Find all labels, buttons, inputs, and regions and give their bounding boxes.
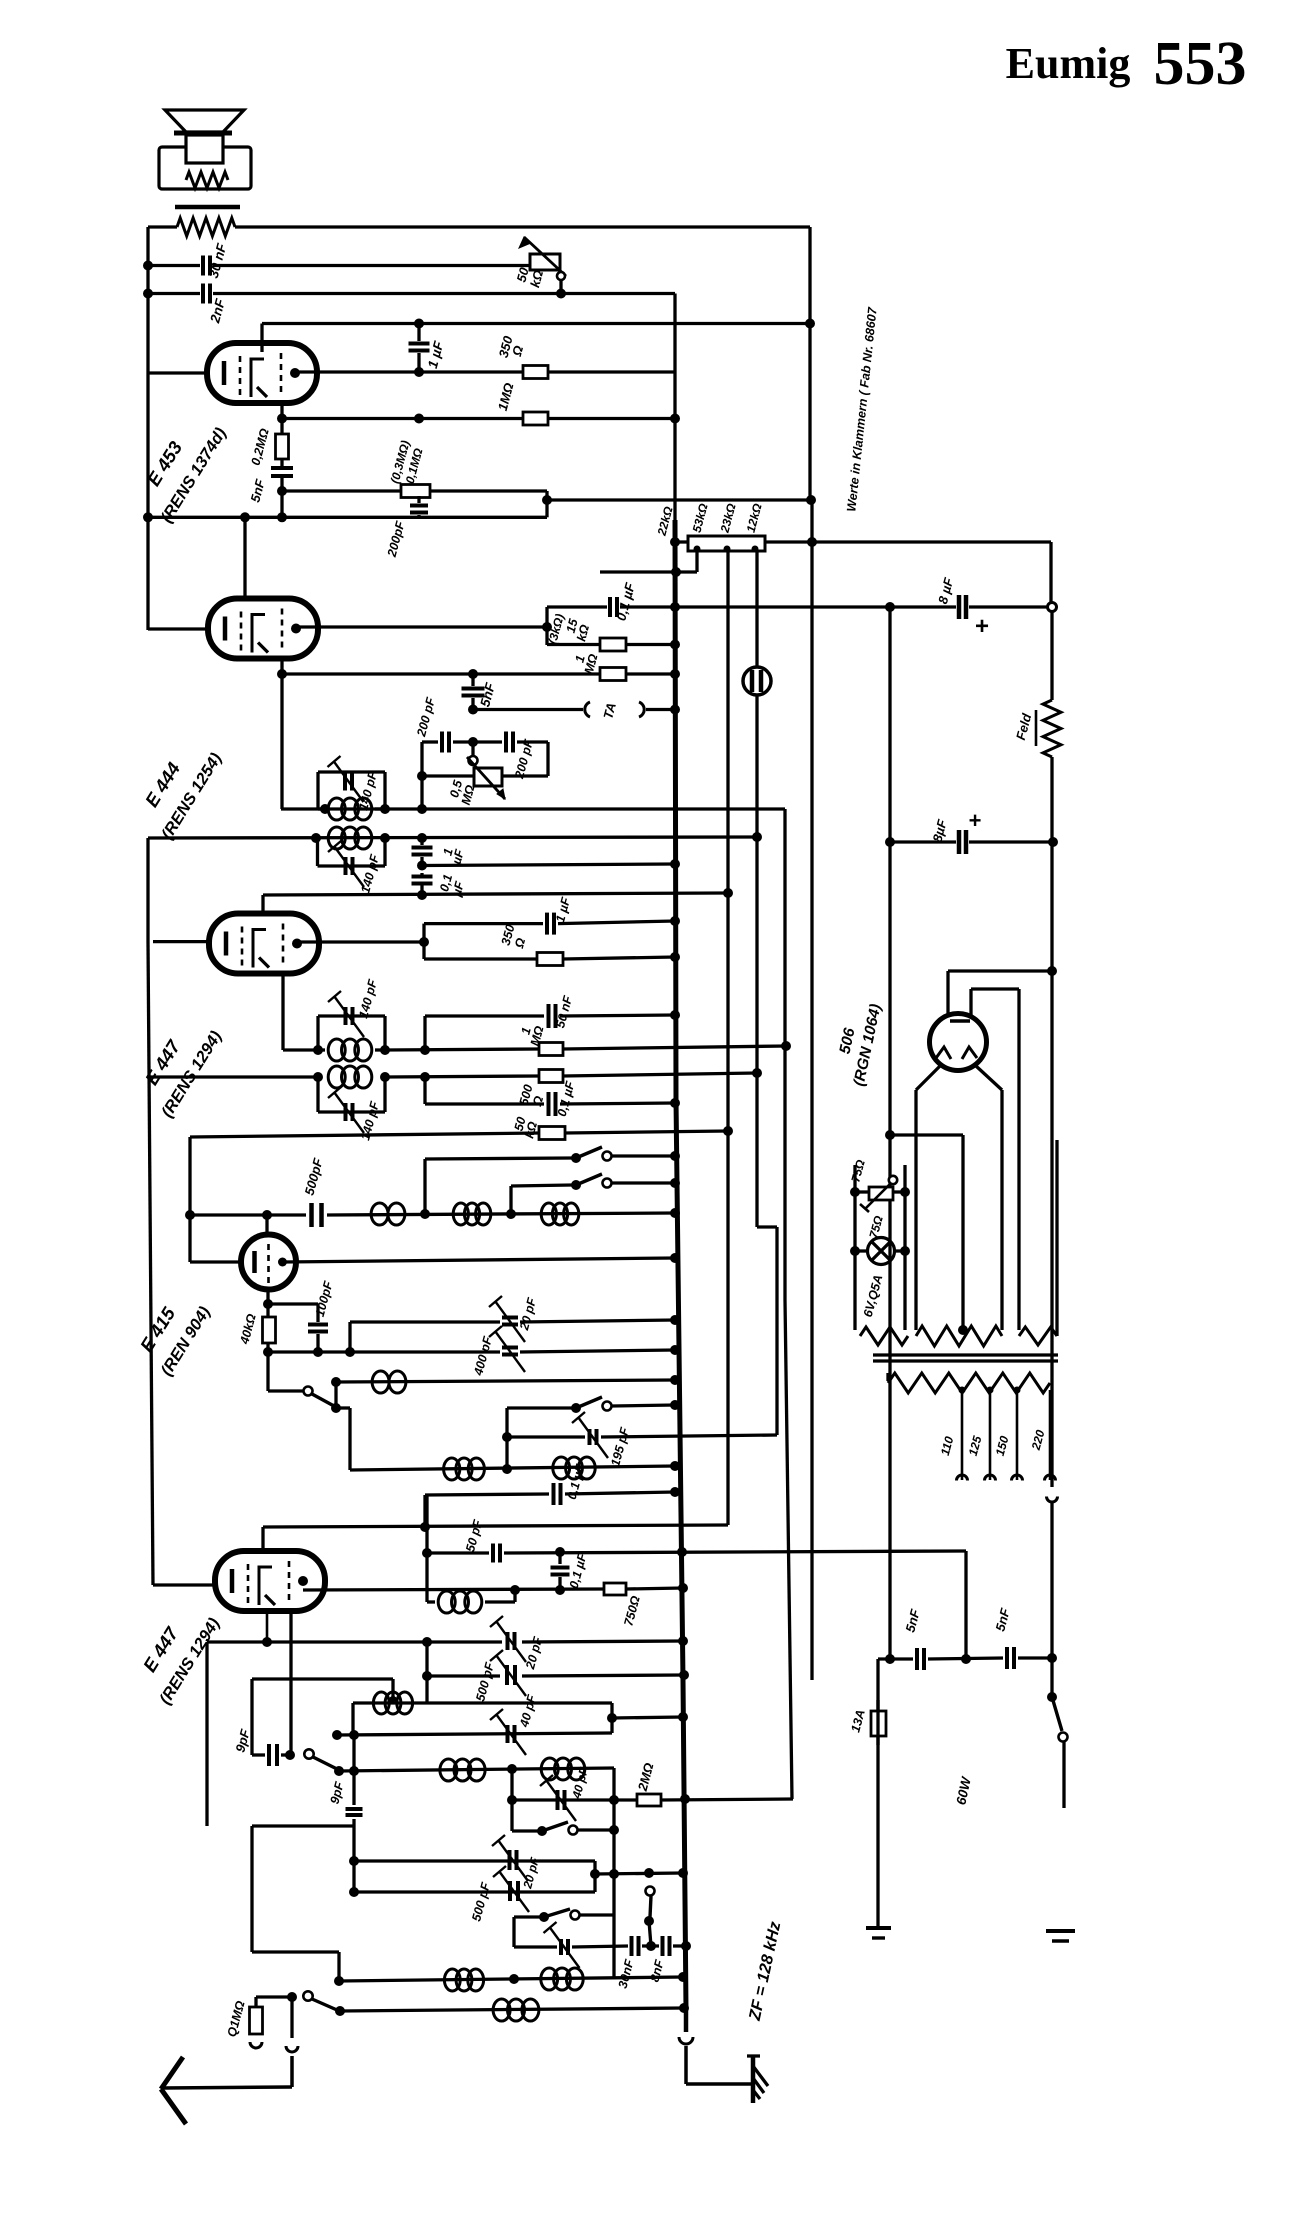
svg-text:+: + xyxy=(969,808,982,833)
svg-text:553: 553 xyxy=(1154,30,1247,98)
svg-text:Eumig: Eumig xyxy=(1006,39,1131,88)
svg-text:+: + xyxy=(975,613,989,640)
